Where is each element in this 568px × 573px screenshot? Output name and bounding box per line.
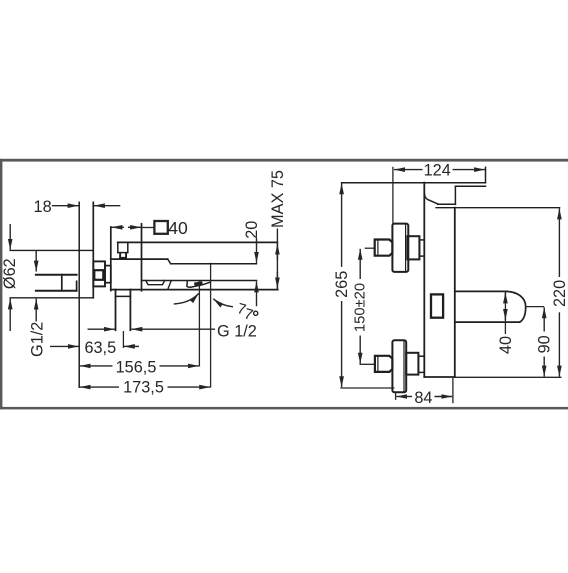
- svg-text:G 1/2: G 1/2: [217, 323, 257, 341]
- svg-text:124: 124: [424, 162, 451, 180]
- svg-text:G1/2: G1/2: [29, 322, 47, 357]
- svg-text:MAX 75: MAX 75: [269, 170, 287, 228]
- svg-text:63,5: 63,5: [84, 339, 116, 357]
- svg-text:40: 40: [497, 336, 515, 354]
- svg-text:Ø62: Ø62: [1, 258, 19, 289]
- svg-text:90: 90: [536, 335, 554, 353]
- svg-text:156,5: 156,5: [116, 359, 157, 377]
- svg-text:220: 220: [551, 280, 568, 307]
- svg-text:173,5: 173,5: [123, 378, 164, 396]
- svg-text:18: 18: [34, 198, 52, 216]
- svg-text:84: 84: [414, 389, 432, 407]
- svg-text:20: 20: [243, 221, 261, 239]
- svg-text:150±20: 150±20: [353, 283, 369, 332]
- svg-text:40: 40: [168, 218, 188, 238]
- svg-text:265: 265: [333, 271, 351, 298]
